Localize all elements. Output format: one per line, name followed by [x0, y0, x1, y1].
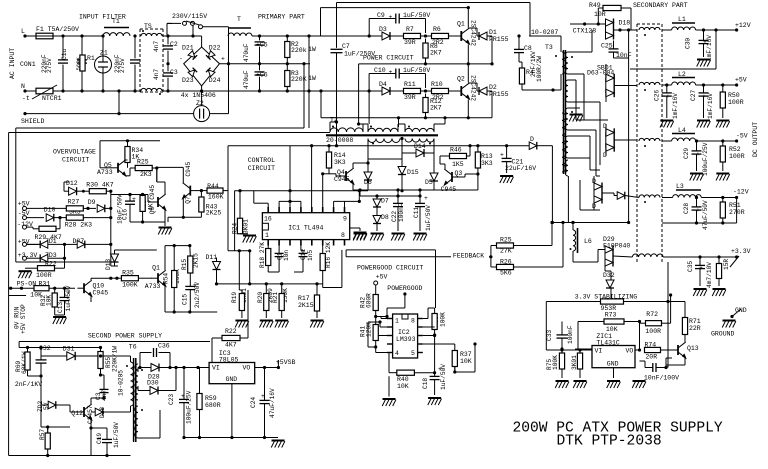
ground chassis: [722, 321, 736, 328]
svg-text:1uF/50V: 1uF/50V: [403, 67, 430, 74]
svg-text:Q10: Q10: [93, 283, 105, 290]
wire feedback: [346, 256, 491, 258]
svg-text:680R: 680R: [205, 402, 221, 409]
svg-text:D10: D10: [44, 207, 56, 214]
svg-text:NTCR1: NTCR1: [42, 95, 62, 102]
svg-text:VI: VI: [212, 365, 220, 372]
svg-text:1K5: 1K5: [452, 161, 464, 168]
shield wire: [23, 112, 26, 115]
svg-text:-12V: -12V: [733, 189, 749, 196]
svg-text:D12: D12: [66, 180, 78, 187]
wire feedback bus: [552, 222, 628, 224]
wire Z2 to choke: [210, 113, 229, 115]
svg-text:SECOND POWER SUPPLY: SECOND POWER SUPPLY: [88, 333, 162, 340]
wire D29 to choke: [613, 256, 632, 257]
drive stage wires: [368, 189, 478, 191]
svg-text:R11: R11: [404, 81, 416, 88]
resistor 953R: [601, 299, 624, 304]
svg-text:230V/115V: 230V/115V: [172, 13, 207, 20]
wire bridge plus to T choke: [228, 36, 230, 64]
svg-text:20-0008: 20-0008: [326, 137, 353, 144]
svg-text:T: T: [237, 16, 241, 23]
main rail y146: [290, 145, 529, 147]
wire R37 to feedback: [455, 371, 466, 373]
svg-text:+3.3V: +3.3V: [731, 248, 751, 255]
svg-text:CIRCUIT: CIRCUIT: [248, 165, 275, 172]
svg-text:C7: C7: [342, 43, 350, 50]
svg-text:R51: R51: [729, 202, 741, 209]
svg-text:680R: 680R: [366, 293, 373, 308]
T3 secondary wires: [568, 51, 592, 53]
svg-text:R6: R6: [433, 26, 441, 33]
big box inner wire: [15, 128, 17, 262]
svg-text:3K3: 3K3: [334, 159, 346, 166]
svg-text:CONTROL: CONTROL: [248, 157, 275, 164]
supply box wire: [19, 341, 210, 343]
resistor R14 3K3: [326, 152, 331, 168]
svg-text:275V: 275V: [119, 58, 126, 73]
svg-text:C945: C945: [93, 290, 109, 297]
ic IC1 TL494: [262, 213, 349, 240]
diode D28 secondary: [151, 364, 159, 372]
svg-text:22R: 22R: [689, 325, 701, 332]
wire 3.3 stab left down: [545, 302, 547, 351]
svg-text:10n: 10n: [283, 250, 290, 261]
svg-text:-t: -t: [22, 95, 30, 102]
wire B+ feed upper: [320, 8, 322, 36]
wire TL431 pins: [575, 348, 592, 350]
svg-text:Q12: Q12: [71, 410, 83, 417]
svg-text:C30: C30: [685, 38, 692, 49]
wire IC2 bottom-left: [375, 347, 377, 353]
svg-text:N: N: [21, 83, 25, 90]
svg-text:D15: D15: [407, 169, 419, 176]
svg-text:160K: 160K: [208, 193, 224, 200]
svg-text:39R: 39R: [404, 94, 416, 101]
wire T2 secondary connections: [367, 139, 369, 160]
wire feedback node: [490, 246, 492, 257]
svg-text:OVERVOLTAGE: OVERVOLTAGE: [53, 149, 96, 156]
bridge rectifier diamond: [184, 47, 220, 86]
wire CTX128 feed: [570, 23, 606, 25]
svg-text:POWERGOOD CIRCUIT: POWERGOOD CIRCUIT: [357, 265, 423, 272]
svg-text:+C5: +C5: [256, 42, 268, 49]
svg-text:C35: C35: [687, 261, 694, 272]
svg-text:470uF: 470uF: [243, 43, 250, 62]
svg-text:CON1: CON1: [20, 61, 36, 68]
IC3 gnd: [231, 384, 233, 438]
svg-text:SECONDARY PART: SECONDARY PART: [633, 2, 688, 9]
svg-text:10-0205: 10-0205: [118, 370, 125, 396]
svg-text:C1u: C1u: [61, 49, 68, 60]
svg-text:C24: C24: [250, 397, 257, 408]
svg-text:-: -: [179, 56, 183, 63]
svg-text:+: +: [389, 14, 393, 21]
control box: [228, 145, 290, 147]
svg-text:Q2: Q2: [457, 76, 465, 83]
svg-text:L6: L6: [584, 238, 592, 245]
svg-text:C8: C8: [524, 45, 532, 52]
svg-text:GROUND: GROUND: [711, 331, 735, 338]
svg-text:1uF/50V: 1uF/50V: [440, 364, 447, 390]
svg-text:LM393: LM393: [396, 336, 416, 343]
svg-text:CIRCUIT: CIRCUIT: [62, 157, 89, 164]
svg-text:L: L: [21, 28, 25, 35]
svg-text:120K: 120K: [366, 322, 373, 337]
svg-text:C15: C15: [182, 294, 189, 305]
common-mode output choke (dashed): [636, 24, 638, 262]
svg-text:D5: D5: [425, 179, 433, 186]
wire Q3 base to R13: [458, 176, 465, 178]
svg-text:F1 T5A/250V: F1 T5A/250V: [36, 26, 79, 33]
T6 secondary rail: [138, 367, 209, 369]
svg-text:1mF/16V: 1mF/16V: [672, 93, 679, 119]
svg-text:4x 1N5406: 4x 1N5406: [181, 92, 216, 99]
svg-text:R7: R7: [406, 26, 414, 33]
svg-text:5K6: 5K6: [500, 270, 512, 277]
svg-text:4n7: 4n7: [153, 69, 160, 80]
svg-text:+5V: +5V: [735, 77, 747, 84]
svg-text:2K15: 2K15: [298, 302, 314, 309]
svg-text:R4: R4: [526, 69, 534, 76]
svg-text:+: +: [132, 196, 136, 203]
diode series -12V: [617, 192, 625, 200]
svg-text:R27: R27: [68, 199, 80, 206]
svg-text:T3: T3: [545, 44, 553, 51]
wire rail A above IC1: [235, 190, 368, 192]
svg-text:C11: C11: [413, 207, 420, 218]
svg-text:R46: R46: [450, 147, 462, 154]
svg-text:R50: R50: [728, 92, 740, 99]
svg-text:1: 1: [395, 318, 399, 325]
svg-text:2nF/1KV: 2nF/1KV: [15, 381, 42, 388]
wire drive mid: [367, 159, 369, 163]
wire feedback node left: [491, 245, 497, 247]
svg-text:10-0207: 10-0207: [531, 29, 558, 36]
svg-text:1uF/50V: 1uF/50V: [113, 422, 120, 448]
svg-text:D11: D11: [206, 254, 218, 261]
svg-text:D63-004: D63-004: [587, 70, 614, 77]
label FEEDBACK: [451, 251, 489, 259]
wire q10 collector node: [109, 277, 112, 280]
svg-text:A733: A733: [97, 169, 113, 176]
svg-text:C945: C945: [149, 185, 156, 200]
svg-text:220K/1W: 220K/1W: [112, 346, 119, 372]
svg-text:-5V: -5V: [736, 133, 748, 140]
svg-text:C28: C28: [683, 203, 690, 214]
svg-text:FEEDBACK: FEEDBACK: [453, 253, 484, 260]
svg-text:39R: 39R: [404, 39, 416, 46]
ground IC1 right: [353, 233, 367, 240]
wire 3.3 stab right vertical: [667, 262, 669, 368]
svg-text:D24: D24: [209, 77, 221, 84]
svg-text:Q1: Q1: [457, 21, 465, 28]
svg-text:Q13: Q13: [687, 345, 699, 352]
svg-text:GND: GND: [607, 361, 619, 368]
svg-text:8: 8: [341, 232, 345, 239]
svg-text:R21: R21: [272, 292, 279, 303]
ground C30: [697, 60, 711, 67]
svg-text:5: 5: [411, 350, 415, 357]
svg-text:3K01: 3K01: [243, 219, 250, 234]
ground IC2: [382, 399, 396, 406]
big box outer: [8, 133, 10, 456]
rectifier dual diode -5V: [606, 128, 614, 151]
wire primary vertical bus: [308, 36, 310, 128]
svg-text:R37: R37: [460, 351, 472, 358]
ground ovp: [18, 271, 32, 278]
svg-text:T6: T6: [129, 344, 137, 351]
svg-text:+: +: [97, 436, 101, 443]
svg-text:4m7/10V: 4m7/10V: [706, 262, 713, 288]
wire bottom rail right: [202, 90, 458, 92]
wire T2 primary connections: [329, 122, 331, 132]
output choke +3.3V: [632, 254, 663, 257]
svg-text:100R: 100R: [36, 272, 52, 279]
svg-text:2K3: 2K3: [140, 171, 152, 178]
svg-text:220k: 220k: [291, 47, 307, 54]
svg-text:+: +: [500, 152, 504, 159]
svg-text:R15: R15: [181, 259, 188, 270]
svg-text:2K7: 2K7: [430, 105, 442, 112]
svg-text:100R: 100R: [728, 99, 744, 106]
svg-text:3K3: 3K3: [481, 160, 493, 167]
svg-text:R17: R17: [298, 295, 310, 302]
svg-text:+C6: +C6: [256, 72, 268, 79]
svg-text:10R: 10R: [594, 11, 606, 18]
svg-text:100K: 100K: [552, 355, 559, 370]
svg-text:R40: R40: [397, 376, 409, 383]
bottom rail: [9, 455, 131, 457]
svg-text:IC1 TL494: IC1 TL494: [288, 225, 323, 232]
svg-text:+: +: [424, 195, 428, 202]
svg-text:100K: 100K: [440, 312, 447, 327]
main 300V feed rail: [19, 347, 100, 349]
svg-text:D30: D30: [147, 380, 159, 387]
svg-text:10K: 10K: [460, 358, 472, 365]
svg-text:GND: GND: [226, 376, 238, 383]
svg-text:R14: R14: [334, 152, 346, 159]
wire top rail: [25, 35, 36, 37]
thermistor NTCR1: [36, 88, 53, 94]
svg-text:C23: C23: [168, 394, 175, 405]
svg-text:C33: C33: [546, 330, 553, 341]
wire ovp vertical node bus: [111, 265, 118, 267]
wire ovp node: [156, 168, 158, 182]
svg-text:D23: D23: [182, 77, 194, 84]
return wire row1: [630, 68, 716, 70]
svg-text:10K: 10K: [46, 295, 53, 306]
svg-text:1uF/50V: 1uF/50V: [65, 285, 72, 311]
svg-text:100uF/25V: 100uF/25V: [702, 142, 709, 176]
svg-text:VO: VO: [243, 365, 251, 372]
svg-text:A733: A733: [145, 283, 161, 290]
svg-text:R25: R25: [137, 159, 149, 166]
svg-text:R20: R20: [257, 292, 264, 303]
svg-text:10nF/100V: 10nF/100V: [644, 375, 679, 382]
svg-text:CTX128: CTX128: [573, 28, 597, 35]
ground R24: [243, 236, 257, 243]
svg-text:R13: R13: [481, 153, 493, 160]
svg-text:275V: 275V: [46, 58, 53, 73]
ic IC2 LM393: [393, 314, 418, 358]
wire IC2 right: [423, 326, 435, 328]
svg-text:Z1: Z1: [100, 50, 108, 57]
svg-text:D: D: [530, 136, 534, 143]
svg-text:C22: C22: [391, 211, 398, 222]
svg-text:2K7: 2K7: [430, 50, 442, 57]
svg-text:100R: 100R: [645, 328, 661, 335]
svg-text:100R: 100R: [729, 153, 745, 160]
svg-text:+12V: +12V: [735, 22, 751, 29]
wire IC2 left: [381, 318, 387, 320]
svg-text:VO: VO: [626, 348, 634, 355]
svg-text:2SC4242: 2SC4242: [470, 20, 477, 46]
svg-text:T1: T1: [112, 18, 120, 25]
svg-text:R19: R19: [231, 292, 238, 303]
svg-text:1uF/50V: 1uF/50V: [425, 205, 432, 231]
svg-text:Q4: Q4: [337, 169, 345, 176]
svg-text:PS-ON: PS-ON: [17, 281, 37, 288]
svg-text:AC INPUT: AC INPUT: [9, 48, 16, 79]
wire D18 to L1: [614, 29, 638, 31]
svg-text:+5V STOP: +5V STOP: [20, 304, 27, 334]
wire top rail right: [252, 35, 458, 37]
return wire row -12V: [662, 222, 737, 224]
svg-text:R10: R10: [431, 81, 443, 88]
svg-text:D21: D21: [182, 44, 194, 51]
svg-text:2K25: 2K25: [206, 210, 222, 217]
svg-text:D1: D1: [489, 29, 497, 36]
svg-text:470uF: 470uF: [243, 70, 250, 89]
wire half-bridge mid rail: [359, 63, 492, 65]
rectifier dual diode -12V: [594, 183, 602, 204]
svg-text:1: 1: [265, 232, 269, 239]
svg-text:R73: R73: [605, 312, 617, 319]
second supply return rail: [184, 437, 278, 439]
svg-text:10K: 10K: [397, 383, 409, 390]
svg-text:+5V: +5V: [376, 274, 388, 281]
svg-text:C13: C13: [57, 302, 64, 313]
wire snubber feed top: [337, 2, 531, 4]
svg-text:D8: D8: [381, 214, 389, 221]
svg-text:C9: C9: [377, 12, 385, 19]
wires above IC1: [267, 203, 269, 207]
svg-text:10K: 10K: [606, 326, 618, 333]
svg-text:+: +: [221, 56, 225, 63]
latch loop wires: [165, 245, 190, 247]
svg-text:L1: L1: [678, 16, 686, 23]
svg-text:VI: VI: [595, 348, 603, 355]
svg-text:C36: C36: [158, 343, 170, 350]
ic IC1 top pins: [267, 207, 269, 213]
wire R35 node rail: [16, 261, 111, 263]
svg-text:IC2: IC2: [398, 329, 410, 336]
svg-text:15R: 15R: [723, 259, 730, 270]
svg-text:D2: D2: [489, 84, 497, 91]
svg-text:Q1: Q1: [152, 265, 160, 272]
svg-text:C16: C16: [122, 209, 129, 220]
svg-text:22uF/16V: 22uF/16V: [505, 165, 536, 172]
svg-text:R52: R52: [729, 146, 741, 153]
svg-text:R18 27K: R18 27K: [259, 242, 266, 268]
svg-text:C27: C27: [690, 90, 697, 101]
svg-text:Q3: Q3: [455, 170, 463, 177]
svg-text:20R: 20R: [645, 354, 657, 361]
svg-text:2K15: 2K15: [193, 253, 200, 268]
svg-text:8: 8: [411, 318, 415, 325]
svg-text:C26: C26: [654, 90, 661, 101]
svg-text:SHIELD: SHIELD: [21, 118, 45, 125]
svg-text:100nF: 100nF: [567, 325, 574, 344]
ground control mid: [158, 228, 172, 235]
svg-text:16: 16: [264, 216, 272, 223]
svg-text:PRIMARY PART: PRIMARY PART: [258, 14, 305, 21]
svg-text:R22: R22: [225, 328, 237, 335]
ground R32 C13: [55, 314, 65, 316]
svg-text:100R/2W: 100R/2W: [536, 56, 543, 82]
svg-text:D7: D7: [381, 198, 389, 205]
svg-text:2u2/50V: 2u2/50V: [194, 282, 201, 308]
svg-text:1uF/250V: 1uF/250V: [344, 51, 375, 58]
svg-text:1mF/16V: 1mF/16V: [706, 35, 713, 61]
ground C18: [428, 398, 442, 405]
svg-text:2SC4242: 2SC4242: [470, 75, 477, 101]
ic IC2 pins: [387, 318, 393, 320]
svg-text:C29: C29: [683, 148, 690, 159]
svg-text:DC OUTPUT: DC OUTPUT: [752, 122, 759, 157]
wire VI node: [562, 349, 592, 351]
svg-text:4n7: 4n7: [153, 41, 160, 52]
svg-text:C945: C945: [185, 161, 192, 176]
wires 3.3V stab interconnect: [639, 322, 641, 351]
svg-text:Q6: Q6: [149, 206, 156, 214]
svg-text:D18: D18: [619, 20, 631, 27]
svg-text:R59: R59: [205, 395, 217, 402]
wire bottom rail: [25, 90, 36, 92]
svg-text:1n5: 1n5: [307, 250, 314, 261]
svg-text:DTK PTP-2038: DTK PTP-2038: [557, 434, 662, 450]
wire bridge + output: [220, 63, 311, 65]
wire C9 loop: [368, 19, 370, 37]
secondary return wires: [584, 119, 608, 121]
svg-text:R72: R72: [646, 311, 658, 318]
svg-text:47uF/50V: 47uF/50V: [702, 200, 709, 230]
svg-text:POWERGOOD: POWERGOOD: [387, 285, 422, 292]
svg-text:4K7: 4K7: [225, 342, 237, 349]
svg-text:D13: D13: [105, 259, 112, 270]
svg-text:D31: D31: [63, 346, 75, 353]
ground T3 aux: [569, 115, 583, 122]
svg-text:R1: R1: [87, 55, 95, 62]
wire T5 to bridge: [163, 35, 168, 37]
svg-text:+: +: [389, 69, 393, 76]
wire node to R35: [115, 277, 118, 280]
T6 primary wires: [130, 356, 132, 362]
svg-text:R30 4K7: R30 4K7: [86, 182, 113, 189]
svg-text:R71: R71: [689, 318, 701, 325]
wire Q5 collector rail: [156, 168, 158, 182]
svg-text:47uF/16V: 47uF/16V: [269, 388, 276, 418]
ic IC1 bottom pins: [267, 240, 269, 246]
svg-text:R16 12K: R16 12K: [325, 242, 332, 268]
svg-text:100K: 100K: [122, 282, 138, 289]
wire C10 loop: [368, 74, 370, 92]
wire PS-ON rail to latch: [9, 295, 26, 297]
svg-text:C2: C2: [170, 41, 178, 48]
svg-text:1uF/50V: 1uF/50V: [403, 12, 430, 19]
svg-text:L3: L3: [676, 183, 684, 190]
